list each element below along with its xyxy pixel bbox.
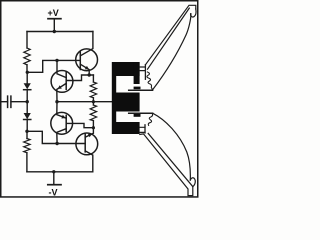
wire top rail (27, 31, 93, 33)
diode D2 (24, 102, 31, 132)
surround roll bottom (190, 178, 195, 187)
node -V rail (52, 170, 55, 173)
voice coil bottom (134, 114, 141, 117)
cone inner edge top (153, 14, 191, 90)
wire output to speaker (57, 101, 112, 103)
resistor R4 (90, 105, 96, 128)
wire bracket to lower bases (27, 131, 85, 143)
node output mid resistors (92, 100, 95, 103)
voice coil former bottom (129, 112, 153, 114)
diode D1 (24, 72, 31, 101)
cone neck ring bottom (144, 125, 146, 133)
svg-text:+V: +V (48, 8, 59, 18)
node Q4 emitter (92, 126, 95, 129)
cone bottom wall outer line (140, 134, 193, 196)
voice coil top (134, 87, 141, 90)
spider squiggle top (147, 72, 152, 90)
cone top wall outer line (145, 5, 195, 65)
node upper base wire (55, 59, 58, 62)
node D2/R2 (25, 130, 28, 133)
border frame (1, 1, 198, 197)
voice coil former top (129, 89, 153, 91)
cone top wall inner line (148, 8, 190, 69)
speaker magnet top block (116, 62, 140, 84)
node output column (55, 100, 58, 103)
transistor Q4 (76, 128, 98, 172)
resistor R3 (90, 75, 96, 105)
speaker magnet bottom block (116, 122, 140, 134)
+V supply terminal (48, 19, 61, 32)
transistor Q2 (51, 60, 93, 101)
node lower base wire (55, 142, 58, 145)
junction dots (25, 30, 95, 174)
neck links top (140, 67, 146, 71)
node input (26, 100, 29, 103)
wire bottom rail (27, 171, 93, 173)
speaker magnet middle block (116, 93, 140, 112)
node Q1 emitter (88, 73, 91, 76)
transistor Q1 (76, 32, 98, 76)
neck links bottom (140, 127, 145, 132)
spider squiggle bottom (148, 113, 152, 125)
cone neck ring top (144, 65, 146, 80)
capacitor C1 input (2, 96, 28, 107)
transistor Q3 (51, 102, 94, 144)
cone bottom wall inner line (148, 133, 193, 186)
node R1/D1 (26, 71, 29, 74)
svg-text:-V: -V (49, 187, 58, 197)
cone inner edge bottom (153, 113, 191, 180)
node +V rail (53, 30, 56, 33)
resistor R1 (24, 32, 30, 73)
resistor R2 (24, 131, 30, 172)
surround roll top (191, 9, 196, 17)
-V supply terminal (48, 172, 61, 185)
speaker magnet back plate (112, 62, 116, 134)
wire bracket to upper bases (27, 60, 80, 72)
